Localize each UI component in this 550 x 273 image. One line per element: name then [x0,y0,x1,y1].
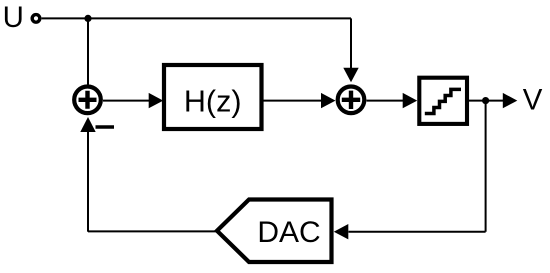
wire feedforward down into summer S2 [350,18,352,68]
arrowhead into summer S2 left [321,93,336,108]
wire junction dot at U branch [84,15,91,22]
svg-text:U: U [3,1,24,34]
arrowhead into DAC [334,224,349,239]
wire quantizer output to V [469,100,503,102]
wire DAC output to feedback corner [88,230,217,232]
wire S1 output to H(z) [103,100,150,102]
wire junction dot at V branch [482,97,489,104]
arrowhead into H(z) [149,93,164,108]
block DAC pentagon [217,200,332,263]
wire U branch down to summer S1 [87,18,89,84]
summer S2 plus sign [342,91,360,109]
summer S2 circle [338,87,365,114]
arrowhead into quantizer [403,93,418,108]
svg-text:H(z): H(z) [184,84,242,118]
summer S1 plus sign [79,91,97,109]
node U input terminal [32,15,40,23]
wire feedback horizontal to DAC [349,231,486,233]
arrowhead toward V [503,93,518,108]
wire U terminal to feedforward corner (top horizontal) [42,17,351,19]
quantizer block box [419,78,467,124]
wire feedback up into summer S1 [87,132,89,232]
summer S1 circle [74,87,101,114]
arrowhead into summer S2 top [343,68,358,83]
block H(z) box [164,65,262,129]
quantizer staircase symbol [425,89,461,113]
svg-text:DAC: DAC [257,216,320,249]
svg-text:V: V [523,84,543,117]
wire H(z) output to summer S2 [262,100,322,102]
arrowhead into summer S1 bottom [80,117,95,132]
wire S2 output to quantizer [367,100,404,102]
minus sign at S1 feedback input [96,125,115,129]
wire feedback down from V junction [485,101,487,232]
